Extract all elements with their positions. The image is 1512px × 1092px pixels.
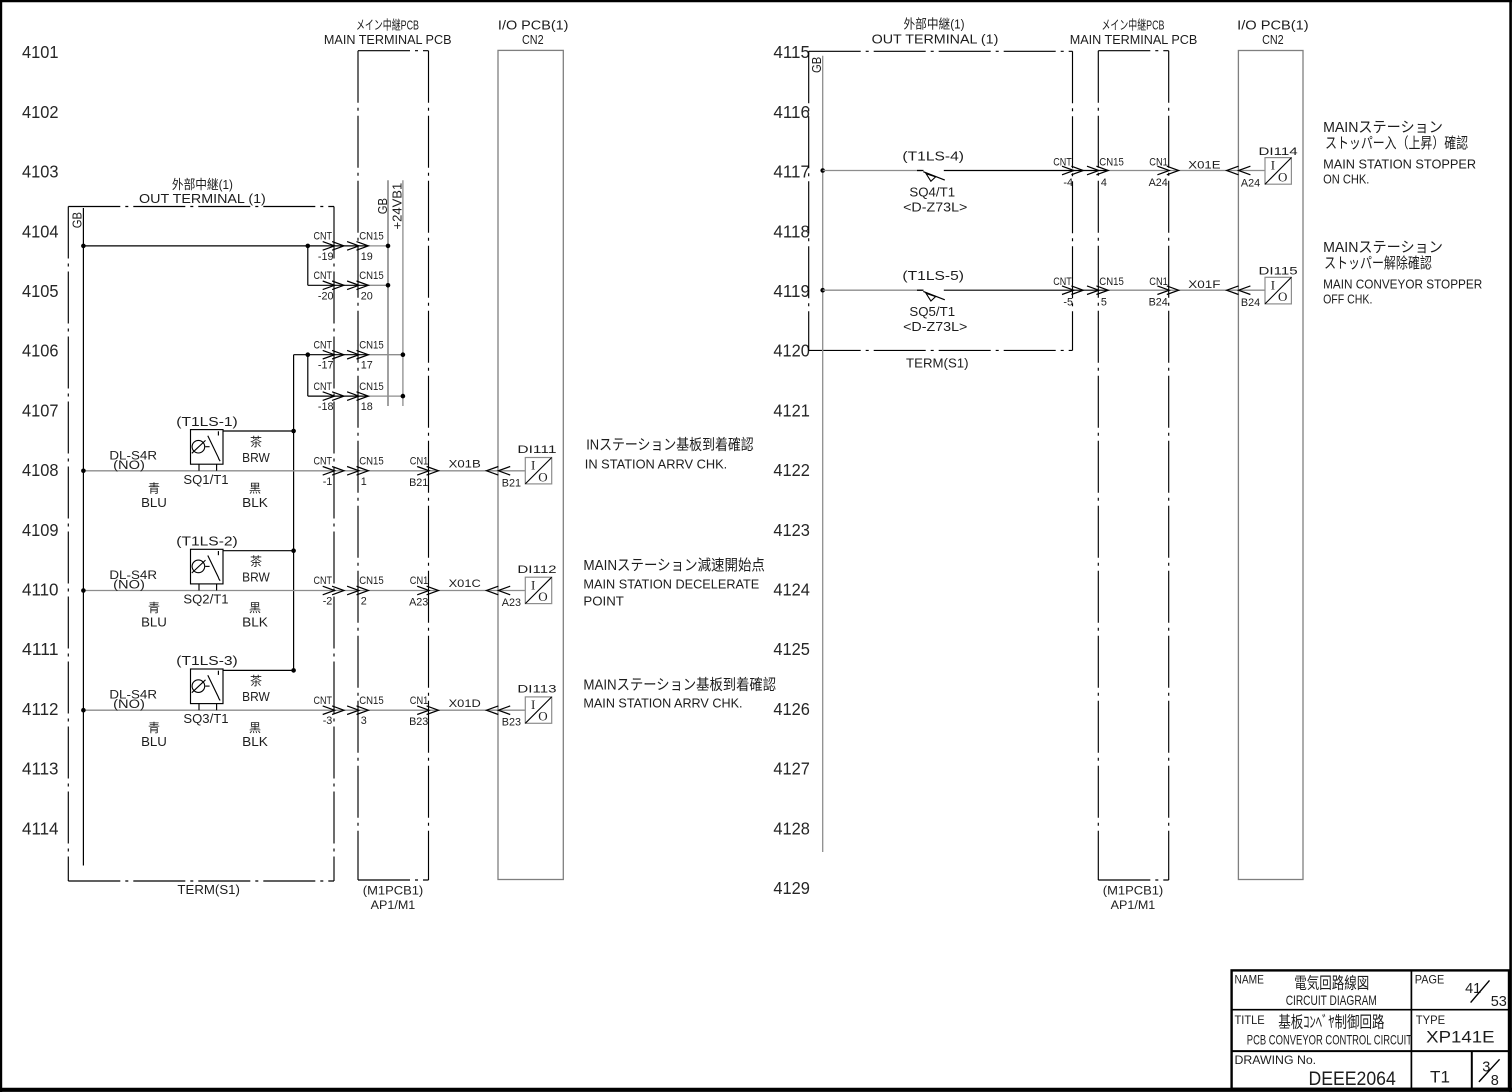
svg-text:A23: A23 xyxy=(409,597,428,609)
svg-text:O: O xyxy=(538,589,547,604)
svg-text:4124: 4124 xyxy=(773,580,810,600)
svg-text:OUT TERMINAL (1): OUT TERMINAL (1) xyxy=(872,32,999,47)
svg-text:+24VB1: +24VB1 xyxy=(389,183,404,230)
label: MAIN TERMINAL PCB header (right) xyxy=(1070,18,1198,48)
svg-text:-5: -5 xyxy=(1063,297,1073,309)
node GB : PCB-side bus line (left) xyxy=(375,180,390,406)
connector CNT-3 / CN15-3 crossing xyxy=(314,695,384,727)
svg-text:I: I xyxy=(531,697,535,712)
svg-text:PAGE: PAGE xyxy=(1415,972,1444,986)
node GB : right ground-bus vertical wire xyxy=(809,56,824,852)
svg-text:CNT: CNT xyxy=(314,339,333,351)
svg-text:18: 18 xyxy=(361,401,373,413)
svg-text:青: 青 xyxy=(148,721,160,735)
svg-text:5: 5 xyxy=(1101,297,1107,309)
svg-text:CN15: CN15 xyxy=(359,339,384,351)
svg-text:4106: 4106 xyxy=(22,341,59,361)
svg-text:4: 4 xyxy=(1101,177,1107,189)
svg-text:黒: 黒 xyxy=(249,721,261,735)
net-number labels 4115-4129 (right column) xyxy=(773,42,810,898)
svg-text:MAINステーション基板到着確認: MAINステーション基板到着確認 xyxy=(583,676,776,694)
connector CN1 pin A24 / net X01E (right) xyxy=(1149,157,1221,190)
svg-text:I: I xyxy=(1271,277,1275,292)
svg-text:MAIN STATION ARRV CHK.: MAIN STATION ARRV CHK. xyxy=(583,695,742,710)
input point DI115 I/O cell xyxy=(1259,266,1298,305)
wire: riser from CNT-17 wire down to limit-switch commons xyxy=(293,355,295,671)
svg-text:4121: 4121 xyxy=(773,400,810,420)
svg-text:CIRCUIT DIAGRAM: CIRCUIT DIAGRAM xyxy=(1286,992,1377,1008)
svg-text:OFF CHK.: OFF CHK. xyxy=(1323,291,1372,306)
svg-text:XP141E: XP141E xyxy=(1426,1028,1494,1047)
limit switch SQ2/T1 (T1LS-2) DL-S4R xyxy=(191,549,224,590)
svg-text:2: 2 xyxy=(361,596,367,608)
svg-text:I/O PCB(1): I/O PCB(1) xyxy=(1237,18,1309,33)
svg-text:O: O xyxy=(538,469,547,484)
svg-text:-20: -20 xyxy=(318,290,334,302)
limit switch SQ1/T1 (T1LS-1) DL-S4R xyxy=(191,430,224,471)
svg-text:4112: 4112 xyxy=(22,699,59,719)
svg-text:CNT: CNT xyxy=(1053,276,1072,288)
svg-text:DI115: DI115 xyxy=(1259,266,1298,278)
svg-text:CN15: CN15 xyxy=(359,381,384,393)
label: OUT TERMINAL (1) (left box title) xyxy=(139,177,266,206)
title block: TITLE cell xyxy=(1235,1013,1413,1047)
svg-text:CN15: CN15 xyxy=(359,270,384,282)
svg-text:IN STATION ARRV CHK.: IN STATION ARRV CHK. xyxy=(585,456,727,471)
input point DI111 I/O cell xyxy=(517,444,556,484)
svg-text:CN15: CN15 xyxy=(1099,157,1124,169)
svg-text:X01C: X01C xyxy=(449,578,481,590)
label: OUT TERMINAL (1) header (right) xyxy=(872,16,999,46)
input point DI113 I/O cell xyxy=(517,684,556,724)
svg-text:I: I xyxy=(531,577,535,592)
svg-text:MAINステーション: MAINステーション xyxy=(1323,119,1443,136)
svg-text:MAIN STATION STOPPER: MAIN STATION STOPPER xyxy=(1323,157,1476,172)
svg-text:CN15: CN15 xyxy=(1099,276,1124,288)
svg-text:B23: B23 xyxy=(409,716,428,728)
annotation: MAIN STATION STOPPER ON CHK. xyxy=(1323,119,1476,187)
svg-text:B23: B23 xyxy=(502,717,521,729)
title block: sheet 3/8 cell xyxy=(1479,1059,1500,1089)
svg-text:A23: A23 xyxy=(502,597,521,609)
svg-text:BLU: BLU xyxy=(141,615,167,630)
svg-text:DI111: DI111 xyxy=(517,444,556,456)
svg-text:4119: 4119 xyxy=(773,281,810,301)
svg-text:BRW: BRW xyxy=(242,689,270,704)
svg-text:4102: 4102 xyxy=(22,102,59,122)
svg-text:ON CHK.: ON CHK. xyxy=(1323,172,1369,187)
svg-text:8: 8 xyxy=(1491,1073,1499,1089)
label: wire colour BRW xyxy=(242,554,270,585)
svg-text:ストッパー入（上昇）確認: ストッパー入（上昇）確認 xyxy=(1325,135,1468,152)
svg-text:CNT: CNT xyxy=(314,575,333,587)
I/O PCB(1) CN2 box (right) xyxy=(1238,51,1303,880)
svg-text:4116: 4116 xyxy=(773,102,810,122)
svg-text:4114: 4114 xyxy=(22,818,59,838)
svg-text:-18: -18 xyxy=(318,401,334,413)
svg-text:MAIN TERMINAL PCB: MAIN TERMINAL PCB xyxy=(1070,32,1198,47)
label: I/O PCB(1) CN2 header (right) xyxy=(1237,18,1309,48)
svg-text:4104: 4104 xyxy=(22,221,59,241)
connector CNT-1 / CN15-1 crossing xyxy=(314,456,384,488)
svg-text:基板ｺﾝﾍﾞﾔ制御回路: 基板ｺﾝﾍﾞﾔ制御回路 xyxy=(1278,1013,1384,1031)
I/O PCB(1) CN2 box (left) xyxy=(498,50,563,879)
svg-text:BLK: BLK xyxy=(242,734,268,749)
label: DL-S4R (NO) xyxy=(109,448,157,472)
svg-text:CN15: CN15 xyxy=(359,575,384,587)
svg-text:DI113: DI113 xyxy=(517,684,556,696)
svg-text:(M1PCB1): (M1PCB1) xyxy=(363,884,424,898)
svg-text:X01D: X01D xyxy=(449,698,481,710)
title block: DRAWING No. DEEE2064 cell xyxy=(1235,1053,1397,1090)
label: SQ4/T1 <D-Z73L> xyxy=(903,185,967,215)
svg-text:BRW: BRW xyxy=(242,450,270,465)
wire CNT-19 / CN15-19 (net CN15-19) xyxy=(83,231,390,263)
net-number labels 4101-4114 (left column) xyxy=(22,42,59,838)
svg-text:黒: 黒 xyxy=(249,482,261,496)
svg-text:PCB CONVEYOR CONTROL CIRCUIT: PCB CONVEYOR CONTROL CIRCUIT xyxy=(1247,1032,1413,1048)
annotation: MAIN CONVEYOR STOPPER OFF CHK. xyxy=(1323,239,1482,307)
svg-text:4101: 4101 xyxy=(22,42,59,62)
node +24VB1 : PCB-side bus line (left) xyxy=(389,180,404,406)
svg-text:CNT: CNT xyxy=(1053,157,1072,169)
limit switch SQ4/T1 (T1LS-4) D-Z73L contact xyxy=(917,171,945,182)
svg-text:X01B: X01B xyxy=(449,459,481,471)
connector CN2 pin A24 into I/O PCB (right) xyxy=(1227,166,1261,189)
svg-text:BRW: BRW xyxy=(242,570,270,585)
title block: TYPE XP141E cell xyxy=(1416,1013,1495,1046)
svg-text:MAINステーション減速開始点: MAINステーション減速開始点 xyxy=(583,557,765,574)
title block: NAME cell xyxy=(1235,972,1377,1008)
MAIN TERMINAL PCB dashed box (left, M1PCB1) xyxy=(358,51,429,880)
svg-text:41: 41 xyxy=(1465,981,1481,997)
svg-text:OUT TERMINAL (1): OUT TERMINAL (1) xyxy=(139,191,266,206)
svg-text:BLU: BLU xyxy=(141,495,167,510)
connector CN2 pin B21 into I/O PCB xyxy=(486,467,521,490)
svg-text:B21: B21 xyxy=(502,477,521,489)
svg-text:(NO): (NO) xyxy=(113,458,145,472)
svg-text:青: 青 xyxy=(148,601,160,615)
svg-text:MAINステーション: MAINステーション xyxy=(1323,239,1443,256)
svg-text:19: 19 xyxy=(361,251,373,263)
connector CNT-4 / CN15-4 crossing (right) xyxy=(1053,157,1124,190)
svg-text:A24: A24 xyxy=(1241,177,1260,189)
svg-text:4107: 4107 xyxy=(22,400,59,420)
svg-text:4109: 4109 xyxy=(22,520,59,540)
wire CNT-20 / CN15-20 (net CN15-20) xyxy=(308,270,391,302)
MAIN TERMINAL PCB dashed box (right, M1PCB1) xyxy=(1098,51,1168,880)
connector CN2 pin B24 into I/O PCB (right) xyxy=(1227,286,1261,309)
label: wire colour BLK xyxy=(242,482,268,510)
svg-text:(T1LS-5): (T1LS-5) xyxy=(902,268,964,283)
svg-text:T1: T1 xyxy=(1430,1068,1450,1087)
svg-text:-2: -2 xyxy=(323,596,333,608)
svg-text:ストッパー解除確認: ストッパー解除確認 xyxy=(1324,255,1432,272)
svg-text:4120: 4120 xyxy=(773,341,810,361)
svg-text:B21: B21 xyxy=(409,477,428,489)
wire: net 4108 sensor line xyxy=(81,469,525,474)
svg-text:GB: GB xyxy=(70,212,85,228)
connector CN2 pin A23 into I/O PCB xyxy=(486,586,521,609)
svg-text:BLK: BLK xyxy=(242,615,268,630)
label: I/O PCB(1) CN2 header (left) xyxy=(498,18,569,48)
svg-text:CN1: CN1 xyxy=(410,695,429,707)
svg-text:I: I xyxy=(1271,158,1275,173)
label: SQ5/T1 <D-Z73L> xyxy=(903,304,967,334)
svg-text:青: 青 xyxy=(148,482,160,496)
svg-text:(T1LS-1): (T1LS-1) xyxy=(176,414,238,429)
svg-text:MAIN TERMINAL PCB: MAIN TERMINAL PCB xyxy=(324,32,452,47)
annotation: MAIN STATION ARRV CHK. xyxy=(583,676,776,711)
svg-text:CN1: CN1 xyxy=(410,575,429,587)
svg-text:茶: 茶 xyxy=(250,554,262,569)
connector CN1 pin A23 / net X01C xyxy=(409,575,481,608)
svg-text:(T1LS-3): (T1LS-3) xyxy=(176,653,238,668)
label: wire colour BRW xyxy=(242,434,270,465)
svg-text:NAME: NAME xyxy=(1235,972,1264,986)
svg-text:外部中継(1): 外部中継(1) xyxy=(904,16,965,31)
svg-text:O: O xyxy=(538,709,547,724)
wire: net 4112 sensor line xyxy=(81,708,525,713)
svg-text:黒: 黒 xyxy=(249,601,261,615)
svg-text:-1: -1 xyxy=(323,476,333,488)
svg-text:1: 1 xyxy=(361,476,367,488)
svg-text:4108: 4108 xyxy=(22,460,59,480)
svg-text:3: 3 xyxy=(361,715,367,727)
svg-text:4103: 4103 xyxy=(22,162,59,182)
svg-text:B24: B24 xyxy=(1149,297,1168,309)
svg-text:DRAWING No.: DRAWING No. xyxy=(1235,1053,1317,1067)
svg-text:TERM(S1): TERM(S1) xyxy=(906,356,969,371)
svg-text:B24: B24 xyxy=(1241,297,1260,309)
connector CN1 pin B21 / net X01B xyxy=(409,456,481,489)
title block: PAGE 41/53 cell xyxy=(1415,972,1507,1010)
svg-text:CNT: CNT xyxy=(314,456,333,468)
label: (M1PCB1) AP1/M1 (right) xyxy=(1103,884,1164,913)
connector CN1 pin B23 / net X01D xyxy=(409,695,481,728)
svg-text:17: 17 xyxy=(361,360,373,372)
svg-text:SQ3/T1: SQ3/T1 xyxy=(183,711,228,726)
svg-text:MAIN STATION DECELERATE: MAIN STATION DECELERATE xyxy=(583,577,759,592)
svg-text:AP1/M1: AP1/M1 xyxy=(371,898,416,912)
svg-text:BLU: BLU xyxy=(141,734,167,749)
svg-text:CN1: CN1 xyxy=(1149,157,1168,169)
svg-text:4123: 4123 xyxy=(773,520,810,540)
wire CNT-17 / CN15-17 (net CN15-17) xyxy=(294,339,406,371)
label: MAIN TERMINAL PCB header (left) xyxy=(324,18,452,48)
input point DI112 I/O cell xyxy=(517,564,556,604)
svg-text:(NO): (NO) xyxy=(113,697,145,711)
svg-text:DI112: DI112 xyxy=(517,564,556,576)
wire CNT-18 / CN15-18 (net CN15-18) xyxy=(308,381,405,413)
label: wire colour BRW xyxy=(242,673,270,704)
connector CN1 pin B24 / net X01F (right) xyxy=(1149,276,1221,309)
junction + branch wire CNT-17 to CNT-18 xyxy=(306,352,311,396)
label: (M1PCB1) AP1/M1 (left) xyxy=(363,884,424,913)
svg-text:4111: 4111 xyxy=(22,639,59,659)
node GB : left ground-bus vertical wire xyxy=(70,208,85,866)
label: wire colour BLU xyxy=(141,721,167,749)
svg-text:4115: 4115 xyxy=(773,42,810,62)
label: wire colour BLK xyxy=(242,721,268,749)
svg-text:CN15: CN15 xyxy=(359,456,384,468)
connector CNT-5 / CN15-5 crossing (right) xyxy=(1053,276,1124,309)
svg-text:O: O xyxy=(1278,289,1287,304)
svg-text:4129: 4129 xyxy=(773,878,810,898)
svg-text:DI114: DI114 xyxy=(1259,146,1298,158)
svg-text:X01E: X01E xyxy=(1188,160,1220,172)
annotation: IN STATION ARRV CHK. xyxy=(585,436,754,472)
limit switch SQ5/T1 (T1LS-5) D-Z73L contact xyxy=(917,290,945,301)
svg-text:SQ4/T1: SQ4/T1 xyxy=(909,185,955,200)
wire: T1LS-4 sensor line from GB xyxy=(820,168,1265,173)
svg-text:53: 53 xyxy=(1491,994,1507,1010)
connector CN2 pin B23 into I/O PCB xyxy=(486,706,521,729)
junction: GB to CNT-19 wire xyxy=(81,244,86,249)
svg-text:-4: -4 xyxy=(1063,177,1073,189)
svg-text:TITLE: TITLE xyxy=(1235,1013,1265,1027)
svg-text:INステーション基板到着確認: INステーション基板到着確認 xyxy=(586,436,754,454)
svg-text:4126: 4126 xyxy=(773,699,810,719)
svg-text:O: O xyxy=(1278,169,1287,184)
wire: SQ1/T1 contact to riser junction xyxy=(223,429,296,434)
svg-text:(NO): (NO) xyxy=(113,578,145,592)
svg-text:4125: 4125 xyxy=(773,639,810,659)
svg-text:CNT: CNT xyxy=(314,270,333,282)
svg-text:4128: 4128 xyxy=(773,818,810,838)
title block frame xyxy=(1232,970,1509,1089)
wire: T1LS-5 sensor line from GB xyxy=(820,288,1265,293)
svg-text:A24: A24 xyxy=(1149,177,1168,189)
svg-text:I: I xyxy=(531,458,535,473)
svg-text:4105: 4105 xyxy=(22,281,59,301)
connector CNT-2 / CN15-2 crossing xyxy=(314,575,384,607)
svg-text:茶: 茶 xyxy=(250,434,262,449)
svg-text:(T1LS-4): (T1LS-4) xyxy=(902,149,964,164)
svg-text:4118: 4118 xyxy=(773,221,810,241)
svg-text:4127: 4127 xyxy=(773,759,810,779)
wire: SQ3/T1 contact to riser junction xyxy=(223,668,296,673)
svg-text:SQ5/T1: SQ5/T1 xyxy=(909,304,955,319)
svg-text:茶: 茶 xyxy=(250,673,262,688)
svg-text:4122: 4122 xyxy=(773,460,810,480)
svg-text:(T1LS-2): (T1LS-2) xyxy=(176,534,238,549)
wire: net 4110 sensor line xyxy=(81,588,525,593)
label: wire colour BLU xyxy=(141,482,167,510)
wire: SQ2/T1 contact to riser junction xyxy=(223,548,296,553)
svg-text:メイン中継PCB: メイン中継PCB xyxy=(356,18,419,33)
input point DI114 I/O cell xyxy=(1259,146,1298,185)
svg-text:4110: 4110 xyxy=(22,580,59,600)
svg-text:-3: -3 xyxy=(323,715,333,727)
svg-text:メイン中継PCB: メイン中継PCB xyxy=(1102,18,1165,33)
svg-text:4113: 4113 xyxy=(22,759,59,779)
svg-text:4117: 4117 xyxy=(773,162,810,182)
svg-text:BLK: BLK xyxy=(242,495,268,510)
label: DL-S4R (NO) xyxy=(109,568,157,592)
svg-text:SQ1/T1: SQ1/T1 xyxy=(183,472,228,487)
svg-text:-19: -19 xyxy=(318,251,334,263)
svg-text:TERM(S1): TERM(S1) xyxy=(177,882,240,897)
svg-text:POINT: POINT xyxy=(583,594,624,609)
annotation: MAIN STATION DECELERATE POINT xyxy=(583,557,765,609)
svg-text:CN15: CN15 xyxy=(359,231,384,243)
junction + branch wire CNT-19 to CNT-20 xyxy=(306,244,311,286)
svg-text:<D-Z73L>: <D-Z73L> xyxy=(903,319,967,334)
svg-text:GB: GB xyxy=(809,57,824,73)
svg-text:CNT: CNT xyxy=(314,381,333,393)
svg-text:MAIN CONVEYOR STOPPER: MAIN CONVEYOR STOPPER xyxy=(1323,276,1482,291)
limit switch SQ3/T1 (T1LS-3) DL-S4R xyxy=(191,669,224,710)
svg-text:CNT: CNT xyxy=(314,695,333,707)
label: DL-S4R (NO) xyxy=(109,688,157,712)
svg-text:AP1/M1: AP1/M1 xyxy=(1111,898,1156,912)
svg-text:-17: -17 xyxy=(318,360,334,372)
svg-text:<D-Z73L>: <D-Z73L> xyxy=(903,200,967,215)
OUT TERMINAL (1) dashed box (left, TERM S1) xyxy=(68,207,334,882)
label: wire colour BLK xyxy=(242,601,268,629)
svg-text:DEEE2064: DEEE2064 xyxy=(1309,1069,1397,1090)
svg-text:CN2: CN2 xyxy=(1262,32,1284,47)
svg-text:TYPE: TYPE xyxy=(1416,1013,1445,1027)
OUT TERMINAL (1) dashed box (right, TERM S1) xyxy=(809,51,1073,350)
svg-text:CN1: CN1 xyxy=(410,456,429,468)
svg-text:CN1: CN1 xyxy=(1149,276,1168,288)
svg-text:CN2: CN2 xyxy=(522,32,544,47)
svg-text:電気回路線図: 電気回路線図 xyxy=(1294,975,1369,993)
svg-text:CN15: CN15 xyxy=(359,695,384,707)
svg-text:外部中継(1): 外部中継(1) xyxy=(172,177,233,192)
svg-text:GB: GB xyxy=(375,198,390,214)
svg-text:(M1PCB1): (M1PCB1) xyxy=(1103,884,1164,898)
svg-text:X01F: X01F xyxy=(1188,279,1221,291)
svg-text:CNT: CNT xyxy=(314,231,333,243)
svg-text:20: 20 xyxy=(361,290,373,302)
svg-text:I/O PCB(1): I/O PCB(1) xyxy=(498,18,569,33)
svg-text:SQ2/T1: SQ2/T1 xyxy=(183,592,228,607)
label: wire colour BLU xyxy=(141,601,167,629)
